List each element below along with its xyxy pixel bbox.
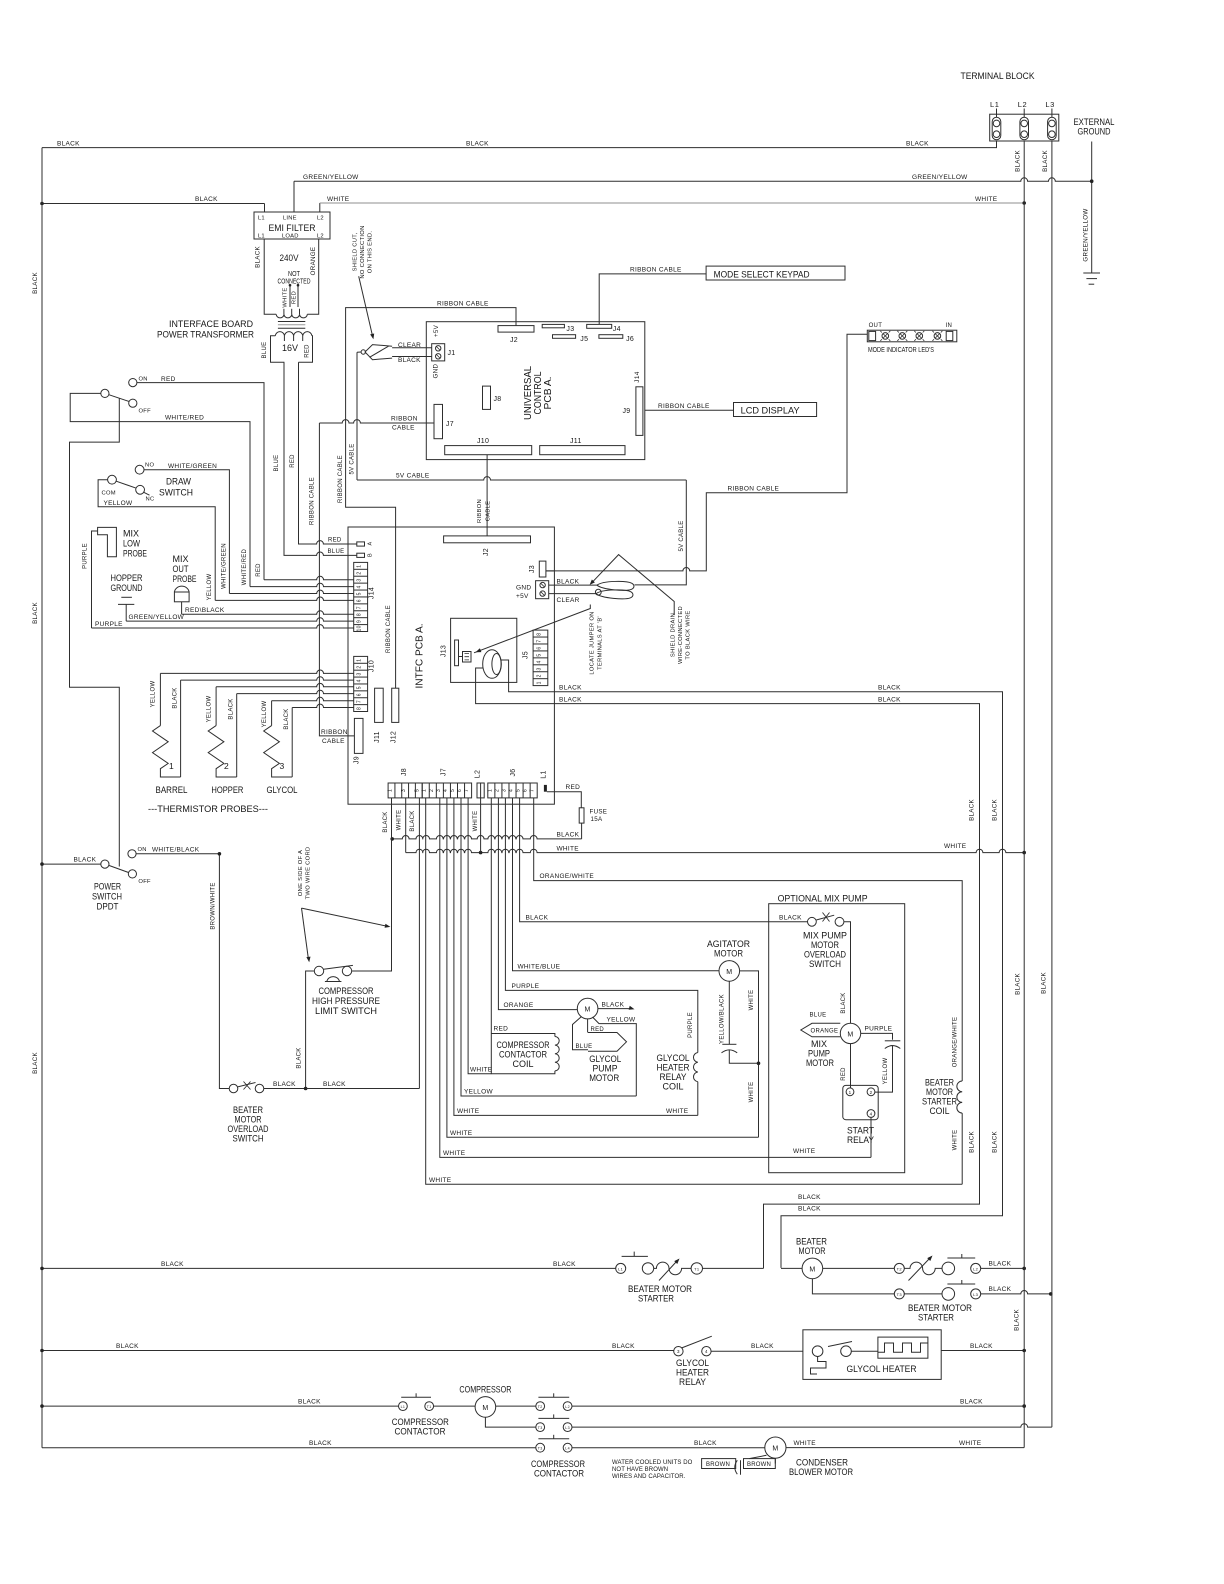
svg-text:CABLE: CABLE <box>392 425 415 432</box>
svg-text:WHITE: WHITE <box>557 845 580 852</box>
svg-text:BLACK: BLACK <box>557 579 580 586</box>
beater motor starter right <box>894 1263 904 1273</box>
svg-text:BLACK: BLACK <box>32 272 39 294</box>
svg-text:ORANGE: ORANGE <box>811 1029 839 1035</box>
thermistor R2 hopper <box>208 726 237 777</box>
wire white/green to J14-5 <box>144 470 229 594</box>
svg-text:J7: J7 <box>441 768 448 776</box>
connector J7 UCB <box>434 404 443 438</box>
wire white top <box>319 203 321 212</box>
svg-text:M: M <box>482 1405 488 1412</box>
red terminal flag glycol <box>588 1033 627 1052</box>
svg-text:LINE: LINE <box>283 216 297 222</box>
svg-text:ORANGE: ORANGE <box>504 1002 534 1009</box>
connector J1 INTFC <box>432 344 445 361</box>
svg-text:J2: J2 <box>483 548 490 556</box>
svg-text:J3: J3 <box>566 326 574 333</box>
svg-text:BLACK: BLACK <box>841 992 847 1013</box>
svg-text:BLACK: BLACK <box>559 697 582 704</box>
svg-text:6: 6 <box>537 647 543 650</box>
universal control PCB A <box>426 322 645 460</box>
svg-text:BLACK: BLACK <box>161 1261 184 1268</box>
svg-text:COIL: COIL <box>663 1082 684 1093</box>
svg-text:PURPLE: PURPLE <box>83 543 89 569</box>
svg-text:RED: RED <box>292 291 298 304</box>
svg-text:5: 5 <box>357 686 363 689</box>
svg-text:ORANGE/WHITE: ORANGE/WHITE <box>952 1017 958 1068</box>
svg-text:LIMIT SWITCH: LIMIT SWITCH <box>315 1006 377 1017</box>
ribbon cable to keypad <box>599 274 706 325</box>
svg-text:6: 6 <box>357 599 363 602</box>
connector J10 INTFC <box>354 656 368 711</box>
beater motor overload switch <box>229 1084 238 1093</box>
svg-text:BLOWER MOTOR: BLOWER MOTOR <box>789 1467 853 1478</box>
wire J8-5 black <box>418 798 420 1089</box>
connector J12 INTFC <box>392 688 399 722</box>
svg-text:RED: RED <box>566 784 581 791</box>
wire J6-4 white/blue to agitator <box>513 798 719 971</box>
svg-text:WHITE: WHITE <box>959 1440 982 1447</box>
svg-text:1: 1 <box>422 789 428 792</box>
svg-text:RIBBON CABLE: RIBBON CABLE <box>630 267 682 274</box>
svg-text:MODE INDICATOR LED'S: MODE INDICATOR LED'S <box>868 345 934 354</box>
svg-text:BLACK: BLACK <box>798 1194 821 1201</box>
svg-text:WHITE: WHITE <box>944 843 967 850</box>
svg-text:BLACK: BLACK <box>526 914 549 921</box>
compressor contactor right row2 <box>485 1417 535 1427</box>
wire red 16V to pin A <box>299 362 357 544</box>
svg-text:WHITE: WHITE <box>327 196 350 203</box>
connector L1 plug <box>544 785 547 792</box>
svg-text:GROUND: GROUND <box>1078 127 1111 138</box>
wire J6-3 purple to glycol relay coil <box>505 798 697 1053</box>
transformer T1 secondary 16V <box>275 332 312 336</box>
glycol heater element <box>878 1337 928 1358</box>
svg-text:BLACK: BLACK <box>297 1047 303 1068</box>
svg-text:BLACK: BLACK <box>960 1399 983 1406</box>
svg-text:MODE SELECT KEYPAD: MODE SELECT KEYPAD <box>714 270 810 281</box>
beater motor starter coil <box>957 1081 962 1113</box>
svg-text:J1: J1 <box>448 350 456 357</box>
5V cable <box>356 352 358 480</box>
svg-text:MOTOR: MOTOR <box>799 1246 826 1257</box>
wire red-black to J14-8 <box>181 602 183 614</box>
connector J6 UCB <box>599 335 623 339</box>
svg-text:1: 1 <box>357 659 363 662</box>
svg-text:COMPRESSOR: COMPRESSOR <box>459 1385 511 1396</box>
ribbon cable J2 to INTFC J12 <box>346 308 516 689</box>
svg-text:T1: T1 <box>694 1266 700 1271</box>
wire blue 16V to pin B <box>284 362 357 555</box>
svg-text:PURPLE: PURPLE <box>688 1012 694 1038</box>
svg-text:YELLOW: YELLOW <box>464 1089 493 1096</box>
svg-text:BLACK: BLACK <box>309 1440 332 1447</box>
svg-text:RED: RED <box>290 454 296 468</box>
svg-text:L3: L3 <box>973 1292 979 1297</box>
svg-text:INTERFACE BOARD: INTERFACE BOARD <box>169 319 253 330</box>
wire L2 vertical <box>1023 141 1025 1448</box>
compressor contactor right row3 <box>42 1447 536 1449</box>
svg-text:WHITE: WHITE <box>952 1130 958 1151</box>
svg-text:T3: T3 <box>897 1292 903 1297</box>
svg-text:6: 6 <box>357 693 363 696</box>
left bus wire black <box>41 148 43 1448</box>
svg-text:BLUE: BLUE <box>576 1044 593 1050</box>
svg-text:4: 4 <box>537 660 543 663</box>
transformer core <box>278 321 305 323</box>
thermistor R1 barrel <box>153 726 181 777</box>
svg-text:RED: RED <box>841 1067 847 1081</box>
svg-text:BLACK: BLACK <box>32 1052 39 1074</box>
svg-text:1: 1 <box>537 681 543 684</box>
svg-text:RED: RED <box>494 1026 509 1033</box>
connector J14 UCB <box>636 387 643 436</box>
connector J11 INTFC <box>375 688 384 722</box>
svg-text:7: 7 <box>464 789 470 792</box>
svg-text:L1: L1 <box>258 216 265 222</box>
connector J4 UCB <box>587 324 612 328</box>
svg-text:BLACK: BLACK <box>694 1440 717 1447</box>
connector J3 INTFC <box>539 561 546 577</box>
compressor contactor coil <box>491 1034 555 1037</box>
fuse 15A <box>579 808 584 823</box>
svg-text:WHITE: WHITE <box>794 1440 817 1447</box>
svg-text:STARTER: STARTER <box>638 1294 674 1305</box>
svg-text:BLACK: BLACK <box>906 141 929 148</box>
svg-text:LOAD: LOAD <box>282 234 299 240</box>
blue wire glycol <box>573 1017 589 1050</box>
svg-text:WHITE/GREEN: WHITE/GREEN <box>168 463 217 470</box>
svg-text:WIRES AND CAPACITOR.: WIRES AND CAPACITOR. <box>612 1474 686 1480</box>
svg-text:5: 5 <box>450 789 456 792</box>
svg-text:1: 1 <box>849 1090 852 1095</box>
shield drain wire <box>592 555 674 616</box>
svg-text:RIBBON CABLE: RIBBON CABLE <box>310 477 316 525</box>
svg-text:J5: J5 <box>580 336 588 343</box>
svg-text:BLACK: BLACK <box>969 1131 976 1153</box>
svg-text:B: B <box>368 553 374 557</box>
svg-text:1: 1 <box>357 565 363 568</box>
wire black to power switch <box>42 863 101 865</box>
svg-text:CABLE: CABLE <box>322 738 345 745</box>
svg-text:J6: J6 <box>510 769 517 777</box>
svg-text:L2: L2 <box>317 216 324 222</box>
J13 plug <box>463 652 472 663</box>
svg-text:1: 1 <box>169 761 174 771</box>
wire purple mix pump <box>861 1033 893 1039</box>
svg-text:RIBBON CABLE: RIBBON CABLE <box>728 485 780 492</box>
svg-text:ORANGE/WHITE: ORANGE/WHITE <box>540 873 595 880</box>
beater motor starter left <box>616 1263 626 1273</box>
svg-text:BLACK: BLACK <box>173 687 179 708</box>
svg-text:4: 4 <box>870 1112 873 1117</box>
wire J8-1 black to HP switch <box>352 798 392 971</box>
svg-text:M: M <box>726 969 732 976</box>
svg-text:T2: T2 <box>897 1266 903 1271</box>
connector J2 UCB <box>498 326 534 333</box>
glycol heater relay coil <box>693 1053 697 1082</box>
svg-text:WHITE: WHITE <box>396 810 402 831</box>
svg-text:BLACK: BLACK <box>970 1343 993 1350</box>
svg-text:TERMINALS AT 'B': TERMINALS AT 'B' <box>598 616 604 670</box>
svg-text:+5V: +5V <box>516 593 529 600</box>
svg-text:INTFC PCB A.: INTFC PCB A. <box>415 624 426 689</box>
svg-text:YELLOW: YELLOW <box>883 1058 889 1085</box>
svg-text:L1: L1 <box>618 1266 624 1271</box>
connector J5 INTFC <box>533 630 548 686</box>
svg-text:BLACK: BLACK <box>398 357 421 364</box>
svg-text:PURPLE: PURPLE <box>865 1026 893 1033</box>
connector J8 bottom <box>388 783 422 798</box>
start relay <box>843 1085 878 1119</box>
svg-text:RED: RED <box>256 563 262 577</box>
wire J8-3 white <box>405 798 407 853</box>
svg-text:BLACK: BLACK <box>323 1081 346 1088</box>
J10 stem to INTFC J2 <box>486 455 488 536</box>
wire black mix pump <box>844 922 851 1023</box>
svg-text:YELLOW: YELLOW <box>104 500 133 507</box>
svg-text:M: M <box>847 1031 853 1038</box>
svg-text:J4: J4 <box>613 326 621 333</box>
svg-text:J10: J10 <box>477 438 489 445</box>
svg-text:16V: 16V <box>282 343 298 353</box>
svg-text:RED: RED <box>591 1027 605 1033</box>
wire yellow glycol pump <box>593 1017 637 1096</box>
svg-text:L1: L1 <box>258 234 265 240</box>
svg-text:M: M <box>585 1007 591 1014</box>
svg-text:BLACK: BLACK <box>557 832 580 839</box>
wire black glycol heater row <box>42 1350 674 1352</box>
svg-text:SWITCH: SWITCH <box>233 1134 264 1145</box>
svg-text:BLACK: BLACK <box>992 799 999 821</box>
svg-text:6: 6 <box>457 789 463 792</box>
svg-text:BLACK: BLACK <box>466 141 489 148</box>
svg-text:ON THIS END.: ON THIS END. <box>368 231 374 274</box>
wire J7-3 white to start relay <box>440 798 871 1158</box>
wire green/yellow to J14-9 <box>125 604 127 621</box>
svg-text:L1: L1 <box>990 100 1000 109</box>
svg-text:WHITE/RED: WHITE/RED <box>242 548 248 585</box>
svg-text:J6: J6 <box>626 336 634 343</box>
wire green/yellow top <box>293 181 295 211</box>
svg-text:15A: 15A <box>591 816 603 823</box>
svg-text:ON: ON <box>139 377 148 383</box>
dpdt link wire <box>70 398 120 866</box>
thermistor glycol wires <box>272 697 354 700</box>
svg-text:WHITE: WHITE <box>793 1148 816 1155</box>
svg-text:HOPPER: HOPPER <box>211 785 243 796</box>
svg-text:1: 1 <box>487 789 493 792</box>
svg-text:3: 3 <box>537 667 543 670</box>
svg-text:5V CABLE: 5V CABLE <box>396 473 430 480</box>
svg-text:L2: L2 <box>973 1266 979 1271</box>
svg-text:7: 7 <box>530 789 536 792</box>
svg-text:M: M <box>809 1266 815 1273</box>
compressor contactor left <box>399 1402 408 1411</box>
svg-text:SHIELD CUT,: SHIELD CUT, <box>353 233 359 272</box>
svg-text:T3: T3 <box>538 1447 543 1451</box>
svg-text:L2: L2 <box>1018 100 1028 109</box>
connector J10 UCB <box>445 446 532 455</box>
svg-text:RED: RED <box>161 376 176 383</box>
svg-text:GREEN/YELLOW: GREEN/YELLOW <box>129 614 185 621</box>
svg-text:BLUE: BLUE <box>262 342 268 359</box>
svg-text:TO BLACK WIRE: TO BLACK WIRE <box>686 610 692 659</box>
svg-text:RIBBON CABLE: RIBBON CABLE <box>338 455 344 503</box>
svg-text:WHITE: WHITE <box>975 196 998 203</box>
svg-text:J5: J5 <box>523 651 530 659</box>
svg-text:BLACK: BLACK <box>284 708 290 729</box>
svg-text:WHITE: WHITE <box>282 287 288 307</box>
ribbon cable J7 <box>319 420 434 423</box>
wire red mix pump <box>850 1044 852 1088</box>
svg-text:NO CONNECTION: NO CONNECTION <box>360 225 366 278</box>
wire black overload out <box>264 1088 306 1090</box>
svg-text:BARREL: BARREL <box>156 785 188 796</box>
svg-text:BLACK: BLACK <box>195 196 218 203</box>
svg-text:RELAY: RELAY <box>847 1135 875 1146</box>
svg-text:EMI FILTER: EMI FILTER <box>269 223 316 233</box>
svg-text:BLACK: BLACK <box>255 246 262 268</box>
svg-text:3: 3 <box>357 578 363 581</box>
svg-text:BLACK: BLACK <box>989 1286 1012 1293</box>
connector J5 UCB <box>553 335 576 339</box>
wire black compressor row <box>42 1405 399 1407</box>
svg-text:DPDT: DPDT <box>97 902 119 913</box>
svg-text:GND: GND <box>516 585 531 592</box>
svg-text:CLEAR: CLEAR <box>557 597 580 604</box>
svg-text:BLACK: BLACK <box>969 799 976 821</box>
wire red L1 to fuse <box>547 792 581 808</box>
svg-text:GREEN/YELLOW: GREEN/YELLOW <box>1083 208 1090 261</box>
condenser capacitor <box>749 1455 766 1458</box>
svg-text:L3: L3 <box>565 1426 570 1430</box>
thermistor barrel wires <box>160 670 353 673</box>
wire white/red to J14-4 <box>70 393 250 586</box>
svg-text:4: 4 <box>508 789 514 792</box>
mix pump capacitor <box>885 1040 901 1042</box>
wire black J13 A <box>501 660 1002 1268</box>
svg-text:RIBBON: RIBBON <box>391 416 418 423</box>
svg-text:WHITE: WHITE <box>457 1108 480 1115</box>
svg-text:RED: RED <box>328 538 342 544</box>
svg-text:J11: J11 <box>570 438 582 445</box>
svg-text:PCB A.: PCB A. <box>543 377 554 410</box>
svg-text:DRAW: DRAW <box>166 477 191 488</box>
svg-text:SWITCH: SWITCH <box>159 488 193 499</box>
LCD display <box>734 403 817 417</box>
blue/orange terminal flag mix pump <box>801 1023 841 1037</box>
svg-text:TERMINAL BLOCK: TERMINAL BLOCK <box>961 71 1036 82</box>
svg-text:IN: IN <box>946 323 953 329</box>
svg-text:RELAY: RELAY <box>679 1377 707 1388</box>
compressor contactor right row1 <box>536 1402 545 1411</box>
mix pump motor <box>840 1023 860 1043</box>
svg-text:GND: GND <box>432 363 439 378</box>
wire white start relay <box>870 1117 872 1157</box>
svg-text:PURPLE: PURPLE <box>95 621 123 628</box>
ferrite toroid <box>483 650 502 679</box>
svg-text:LCD DISPLAY: LCD DISPLAY <box>741 406 801 417</box>
svg-text:4: 4 <box>357 585 363 588</box>
svg-text:YELLOW/BLACK: YELLOW/BLACK <box>719 994 725 1044</box>
svg-text:BLACK: BLACK <box>989 1261 1012 1268</box>
wire J7-4 white to agitator <box>447 798 759 1137</box>
svg-text:3: 3 <box>436 789 442 792</box>
svg-text:2: 2 <box>537 674 543 677</box>
svg-text:BROWN/WHITE: BROWN/WHITE <box>211 882 217 929</box>
power switch upper pole <box>129 379 137 387</box>
svg-text:WATER COOLED UNITS DO: WATER COOLED UNITS DO <box>612 1460 693 1466</box>
svg-text:BLACK: BLACK <box>612 1343 635 1350</box>
svg-text:BLACK: BLACK <box>602 1002 625 1009</box>
connector J7 bottom <box>422 783 471 798</box>
wire J6-2 orange to glycol pump <box>498 798 577 1010</box>
svg-text:WHITE: WHITE <box>470 1067 493 1074</box>
transformer T1 primary <box>264 239 276 314</box>
svg-text:BLACK: BLACK <box>57 141 80 148</box>
mode indicator LEDs <box>867 330 957 342</box>
svg-text:5: 5 <box>415 789 421 792</box>
svg-text:WHITE: WHITE <box>429 1177 452 1184</box>
svg-text:BLACK: BLACK <box>779 915 802 922</box>
svg-text:BLACK: BLACK <box>1042 150 1049 172</box>
power switch DPDT <box>101 860 109 868</box>
svg-text:STARTER: STARTER <box>918 1313 954 1324</box>
svg-text:5: 5 <box>516 789 522 792</box>
svg-text:9: 9 <box>357 620 363 623</box>
GND +5V terminal <box>536 581 549 599</box>
svg-text:PROBE: PROBE <box>173 574 197 585</box>
wire white bus <box>406 849 1024 852</box>
shielded pair to 5V cable <box>549 584 597 586</box>
svg-text:J3: J3 <box>529 565 536 573</box>
svg-text:COIL: COIL <box>513 1059 534 1070</box>
svg-text:MOTOR: MOTOR <box>589 1073 619 1084</box>
svg-text:T1: T1 <box>427 1405 432 1409</box>
agitator capacitor <box>728 981 730 1044</box>
svg-text:BLACK: BLACK <box>74 857 97 864</box>
wire purple to J14-10 <box>92 531 98 628</box>
svg-text:L2: L2 <box>317 234 324 240</box>
svg-text:WHITE/GREEN: WHITE/GREEN <box>222 543 228 589</box>
connector J11 UCB <box>540 446 625 455</box>
wire black beater row1 <box>42 1267 616 1269</box>
svg-text:CONNECTED: CONNECTED <box>278 277 311 286</box>
svg-text:CONTACTOR: CONTACTOR <box>395 1427 446 1438</box>
svg-text:3: 3 <box>280 761 285 771</box>
svg-text:BLACK: BLACK <box>32 602 39 624</box>
svg-text:WHITE: WHITE <box>749 990 755 1011</box>
svg-text:NC: NC <box>146 497 155 503</box>
connector J14 INTFC <box>354 562 368 631</box>
wire black L1 top <box>42 141 997 148</box>
svg-text:J13: J13 <box>441 645 448 657</box>
svg-text:J14: J14 <box>634 371 641 382</box>
svg-text:NOT HAVE BROWN: NOT HAVE BROWN <box>612 1467 668 1473</box>
wire yellow to J14-6 <box>98 480 215 601</box>
svg-text:7: 7 <box>357 700 363 703</box>
svg-text:3: 3 <box>677 1349 680 1354</box>
svg-text:GLYCOL HEATER: GLYCOL HEATER <box>847 1364 917 1375</box>
wire black bus <box>392 836 581 839</box>
svg-text:M: M <box>772 1446 778 1453</box>
svg-text:MOTOR: MOTOR <box>806 1058 834 1069</box>
svg-text:BLACK: BLACK <box>798 1206 821 1213</box>
svg-text:WHITE/BLUE: WHITE/BLUE <box>518 963 561 970</box>
ribbon cable to LCD <box>645 409 734 411</box>
condenser blower motor <box>765 1437 786 1458</box>
